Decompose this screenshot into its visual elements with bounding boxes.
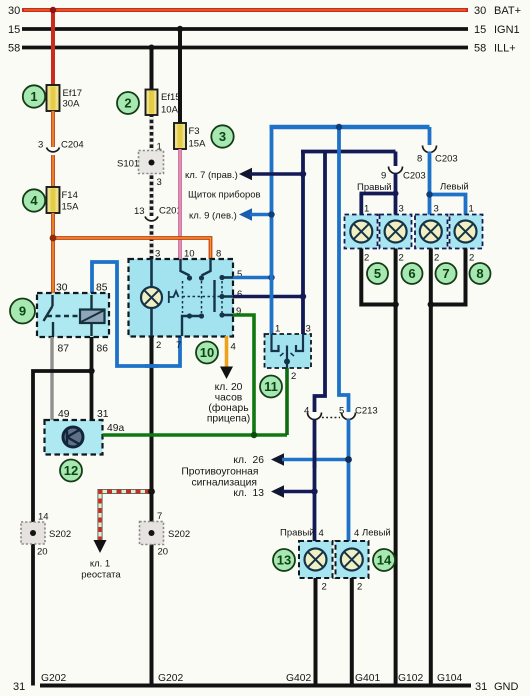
connector C203 pin9 [381,152,426,182]
svg-text:G402: G402 [286,673,311,684]
wire blue top horizontal [270,125,430,129]
svg-text:1: 1 [157,142,162,153]
relay coil [80,295,105,336]
connector C213 pin4 [304,406,322,421]
wire green item11 pin2 [285,368,289,435]
switch contacts interior [181,259,234,336]
wire navy C213-4 to lamp13 [313,419,317,541]
svg-text:58: 58 [474,43,486,55]
svg-text:(фонарь: (фонарь [208,402,248,414]
wire black relay pin86 down [90,337,94,420]
svg-text:Ef15: Ef15 [161,92,181,103]
svg-text:2: 2 [357,582,362,593]
wire blue left net: top bus to item11 pin1 [270,127,274,334]
connector C213 pin5 [322,406,378,421]
item11 pin labels [275,324,311,383]
junction bus15 [177,26,183,32]
fuse F3 15A [174,123,206,150]
svg-text:3: 3 [155,249,160,260]
svg-text:4: 4 [319,528,324,539]
svg-text:4: 4 [304,406,309,417]
wire green flasher 49a to item11 pin2 [103,433,288,437]
wire red/orange C204 to fuse F14 [51,155,55,187]
svg-text:9: 9 [19,304,26,319]
wire black lamp14 ground to G401 [350,578,354,686]
svg-text:15: 15 [8,24,20,36]
svg-text:C204: C204 [61,140,84,151]
svg-text:G202: G202 [158,673,183,684]
lamp 6 (right) [380,215,412,249]
switch pin labels top [155,249,221,260]
svg-text:3: 3 [399,204,404,215]
svg-text:87: 87 [58,344,70,355]
wire navy crossing patch [313,451,317,468]
wire navy top horizontal [301,150,396,154]
wire navy C203-9 to right lamps [360,173,399,215]
switch lamp wire pin3-pin2 [150,259,153,336]
svg-text:кл. 20: кл. 20 [215,382,243,393]
wire black bus58 to fuse Ef15 [150,48,154,90]
lamp13/14 pin2 labels [322,582,363,593]
bus 31 (GND) [40,684,471,688]
svg-text:2: 2 [322,582,327,593]
lamp pin labels top [364,204,474,215]
lamp 14 (front left) [336,541,369,578]
svg-text:ILL+: ILL+ [494,43,516,55]
junction bus58 [149,45,155,51]
svg-text:12: 12 [64,463,78,478]
svg-text:2: 2 [156,340,161,351]
junction orange branch [50,235,57,242]
wire black bus15 to fuse F3 [178,29,182,123]
svg-text:C213: C213 [355,406,378,417]
fuse Ef15 10A [146,90,181,116]
svg-text:15: 15 [474,24,486,36]
svg-text:9: 9 [381,171,386,182]
wire orange switch pin4 arrow [225,336,229,369]
label kl.13 alarm [233,485,317,499]
svg-text:4: 4 [231,342,236,353]
svg-text:прицепа): прицепа) [207,414,250,425]
svg-text:30: 30 [8,5,20,17]
svg-text:S101: S101 [117,159,139,170]
item circle 9 [10,299,35,324]
svg-text:86: 86 [97,344,109,355]
svg-text:13: 13 [134,206,145,217]
wire black/white striped fuse Ef15 to switch pin3 [150,115,154,259]
wire blue switch pin7 to relay pin85 [92,262,180,366]
svg-text:C203: C203 [403,171,426,182]
bus 15 (IGN1) [22,27,468,31]
svg-text:Левый: Левый [362,528,391,539]
wire red/orange fuse F14 to relay pin30 [51,213,55,293]
wire green switch pin9 [233,315,254,435]
wire navy right net vertical [301,152,305,335]
label kl.7 instrument cluster [185,168,306,181]
svg-text:15A: 15A [189,139,207,150]
relay contact [44,295,81,336]
svg-text:6: 6 [237,289,242,300]
switch item 11 box [265,334,312,368]
svg-text:C203: C203 [435,154,458,165]
fuse F14 15A [47,187,80,213]
wire gray relay pin87 to flasher pin49 [50,337,53,420]
svg-text:5: 5 [374,266,381,281]
svg-text:2: 2 [291,371,296,382]
bus 31 labels [13,673,519,693]
svg-text:сигнализация: сигнализация [191,478,257,489]
svg-text:кл. 1: кл. 1 [90,559,110,570]
svg-text:S202: S202 [49,529,71,540]
item circle 10 [196,342,218,364]
svg-text:F14: F14 [62,190,78,201]
wire orange branch to switch pin8 [53,238,211,259]
svg-text:20: 20 [37,547,48,558]
junction striped wire [148,488,155,495]
svg-text:кл. 9 (лев.): кл. 9 (лев.) [189,211,237,222]
svg-text:2: 2 [469,253,474,264]
svg-text:2: 2 [399,253,404,264]
connector C204 pin3 [38,140,84,156]
svg-text:8: 8 [476,266,483,281]
splice S101 [117,142,164,189]
connector C203 pin8 [417,127,458,165]
svg-text:1: 1 [275,324,280,335]
svg-text:13: 13 [277,553,291,568]
wire blue C213-5 branch [339,127,349,412]
item circle 11 [260,376,282,398]
svg-text:3: 3 [306,324,311,335]
bus labels right [474,5,521,55]
svg-text:14: 14 [38,512,49,523]
svg-text:S202: S202 [168,529,190,540]
svg-text:14: 14 [377,553,392,568]
wire black lamp8 ground [431,249,466,305]
svg-text:G104: G104 [437,673,462,684]
svg-text:GND: GND [494,681,519,693]
flasher symbol [63,427,83,447]
svg-text:20: 20 [158,547,169,558]
svg-text:30A: 30A [63,99,81,110]
lamp 5 (right) [345,215,378,249]
bus 30 (BAT+) [22,8,468,12]
wire blue crossing patch [145,364,158,368]
wire black lamp13 ground to G402 [314,578,318,686]
lamp pin labels bottom [364,253,474,264]
svg-text:Левый: Левый [440,182,469,193]
svg-text:49a: 49a [107,423,124,434]
svg-text:3: 3 [157,177,162,188]
splice S202 left [21,512,71,558]
bus labels left [8,5,20,55]
item11 contacts [272,334,304,368]
wire blue switch pin5 [233,276,272,280]
svg-text:8: 8 [417,154,422,165]
wire red/green striped to rheostat [100,492,152,542]
svg-text:F3: F3 [189,126,200,137]
junction pin86 branch [88,368,94,374]
svg-text:Щиток приборов: Щиток приборов [188,190,261,201]
relay item 9 box [37,293,109,337]
svg-text:7: 7 [176,340,181,351]
svg-text:G401: G401 [355,673,380,684]
svg-text:Ef17: Ef17 [63,88,83,99]
svg-text:1: 1 [30,89,37,104]
svg-text:10: 10 [184,249,195,260]
svg-text:7: 7 [442,266,449,281]
svg-text:кл. 7 (прав.): кл. 7 (прав.) [185,170,238,181]
svg-text:1: 1 [469,204,474,215]
junction green [251,432,257,438]
svg-text:10A: 10A [161,105,179,116]
wire black lamp7 ground to G104 [429,249,433,686]
svg-text:кл. 26: кл. 26 [233,455,264,466]
splice S202 right [140,511,191,558]
svg-text:30: 30 [474,5,486,17]
svg-text:3: 3 [38,140,43,151]
svg-text:1: 1 [364,204,369,215]
svg-text:31: 31 [13,681,25,693]
label kl.26 alarm [233,453,352,466]
svg-text:BAT+: BAT+ [494,5,521,17]
svg-text:85: 85 [96,283,108,294]
switch pin labels right [236,269,242,317]
svg-text:10: 10 [200,345,214,360]
connector C201 pin13 [134,206,182,225]
svg-text:Правый: Правый [357,182,392,193]
label kl.1 rheostat [81,559,121,581]
item circle 1 [23,85,45,107]
lamp 8 (left) [450,215,483,249]
junction blue top [336,124,342,130]
svg-text:IGN1: IGN1 [494,24,520,36]
wire black switch pin2 to ground G202 [150,336,154,686]
switch illumination lamp [141,287,162,308]
svg-text:2: 2 [124,96,131,111]
svg-text:5: 5 [339,406,344,417]
bus 58 (ILL+) [22,46,468,50]
svg-text:кл. 13: кл. 13 [233,488,264,499]
wire black branch to S202 and ground [33,371,92,686]
item circle 3 [211,125,233,147]
svg-text:7: 7 [157,511,162,522]
svg-text:G202: G202 [41,673,66,684]
svg-text:реостата: реостата [81,570,121,581]
junction bus30/fuse1 [50,7,56,13]
svg-text:15A: 15A [62,202,80,213]
wire black lamp6 ground to G102 [394,249,398,686]
wire blue C213-5 to lamp14 [347,419,351,541]
svg-text:Противоугонная: Противоугонная [181,467,258,478]
item circles 13 14 [273,549,295,571]
wire red from bus30 to fuse1 [51,10,55,85]
svg-text:31: 31 [97,409,109,420]
label kl.9 [189,208,275,221]
flasher unit item 12 box [45,420,103,455]
rheostat glyph [169,291,179,303]
item circle 12 [60,460,82,482]
svg-text:58: 58 [8,43,20,55]
item circles 5 6 7 8 [367,263,388,284]
wire red/orange fuse1 to C204 [51,111,55,148]
wire navy switch pin6 [233,295,303,299]
arrow to rheostat [94,540,107,553]
light switch item 10 box [129,259,234,337]
wire blue C203-8 to left lamps [426,152,465,215]
label kl.20 trailer [207,382,250,425]
relay pin labels [56,283,108,355]
switch pin labels bottom [156,340,236,353]
svg-text:3: 3 [219,129,226,144]
svg-text:8: 8 [216,249,221,260]
svg-text:11: 11 [264,379,278,394]
svg-text:4: 4 [30,193,38,208]
svg-text:Правый: Правый [280,528,315,539]
svg-text:30: 30 [56,283,68,294]
svg-text:3: 3 [434,204,439,215]
wire black lamp5 ground [361,249,395,305]
lamp 13 (front right) [299,541,333,578]
svg-text:часов: часов [215,393,243,404]
svg-text:4: 4 [354,528,359,539]
wire navy C213-4 branch [315,152,326,413]
item circle 4 [23,189,45,211]
wire pink fuse F3 to switch pin10 [178,149,182,259]
svg-text:2: 2 [364,253,369,264]
svg-text:31: 31 [475,681,487,693]
svg-text:2: 2 [434,253,439,264]
svg-text:G102: G102 [398,673,423,684]
fuse Ef17 30A [47,85,83,111]
svg-text:6: 6 [408,266,415,281]
lamp 7 (left) [415,215,448,249]
item circle 2 [117,92,139,114]
label alarm system [181,467,258,489]
flasher pin labels [58,409,124,434]
svg-text:49: 49 [58,409,70,420]
